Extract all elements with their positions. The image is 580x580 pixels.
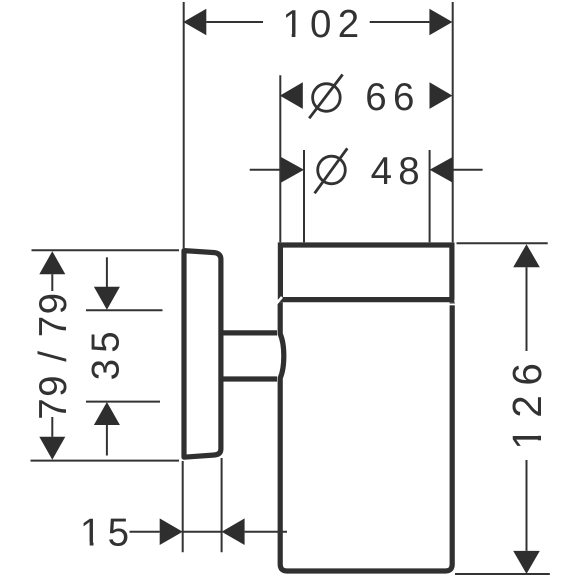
15 left arrow <box>160 518 183 545</box>
Ø66 left extension line <box>279 75 281 242</box>
15 left extension line <box>182 461 184 552</box>
Ø66 right arrow <box>430 82 453 109</box>
dimension 15 <box>80 511 287 554</box>
79/79 bottom extension line <box>31 460 180 462</box>
15 right extension line <box>221 458 223 552</box>
svg-text:79 / 79: 79 / 79 <box>32 291 75 419</box>
126 top arrow <box>513 244 540 267</box>
35 down arrow <box>94 287 120 310</box>
Ø48 right arrow <box>430 157 453 183</box>
102 right arrow <box>429 9 452 36</box>
35 up arrow <box>94 402 120 425</box>
102 left extension line <box>183 2 185 248</box>
126 lower tail <box>526 460 528 551</box>
102 left tail <box>206 21 263 23</box>
35 bottom extension line <box>86 401 160 403</box>
dimension 35 <box>84 257 127 455</box>
dimension Ø48 <box>250 148 483 193</box>
notch left band/cup junction <box>276 297 282 304</box>
arm bottom line <box>223 376 277 381</box>
102 right tail <box>370 21 430 23</box>
tumbler holder band <box>278 245 454 300</box>
126 top extension line <box>457 242 548 244</box>
15 inner line <box>183 531 222 533</box>
svg-text:66: 66 <box>365 76 420 119</box>
35 lower tail <box>106 425 108 456</box>
Ø48 right extension line <box>429 150 431 242</box>
126 bottom extension line <box>455 573 550 575</box>
svg-text:102: 102 <box>282 3 365 46</box>
102 left arrow <box>183 9 206 36</box>
svg-text:126: 126 <box>504 354 550 450</box>
svg-text:15: 15 <box>80 511 135 554</box>
Ø66 left arrow <box>280 82 303 109</box>
wall plate <box>184 251 221 458</box>
35 upper tail <box>106 257 108 287</box>
126 bottom arrow <box>513 551 540 574</box>
79/79 upper tail <box>51 274 53 291</box>
svg-text:35: 35 <box>84 325 127 380</box>
126 upper tail <box>526 267 528 351</box>
dimension Ø66 <box>280 75 453 120</box>
79/79 top arrow <box>39 251 65 274</box>
Ø48 left arrow <box>281 157 304 183</box>
102/66 right extension line <box>452 2 454 242</box>
arm top line <box>223 330 277 335</box>
dimension 102 <box>183 3 452 46</box>
35 top extension line <box>86 309 163 311</box>
glyph corrections: remove serif bar of digit 1 (Liberation) <box>82 33 542 546</box>
15 right arrow <box>222 518 245 545</box>
Ø48 right tail <box>453 169 483 171</box>
79/79 bottom arrow <box>39 437 65 460</box>
79/79 top extension line <box>32 249 180 251</box>
Ø48 left tail <box>250 169 281 171</box>
Ø48 diameter symbol <box>318 156 346 184</box>
dimension 126 <box>504 244 550 574</box>
tumbler body <box>280 302 452 571</box>
15 right tail <box>245 531 287 533</box>
svg-text:48: 48 <box>371 150 426 193</box>
dimension 79/79 <box>32 251 75 460</box>
15 left tail <box>130 531 160 533</box>
Ø66 diameter symbol <box>313 84 341 112</box>
79/79 lower tail <box>51 417 53 437</box>
notch right band/cup junction <box>449 303 455 305</box>
Ø48 left extension line <box>303 150 305 242</box>
